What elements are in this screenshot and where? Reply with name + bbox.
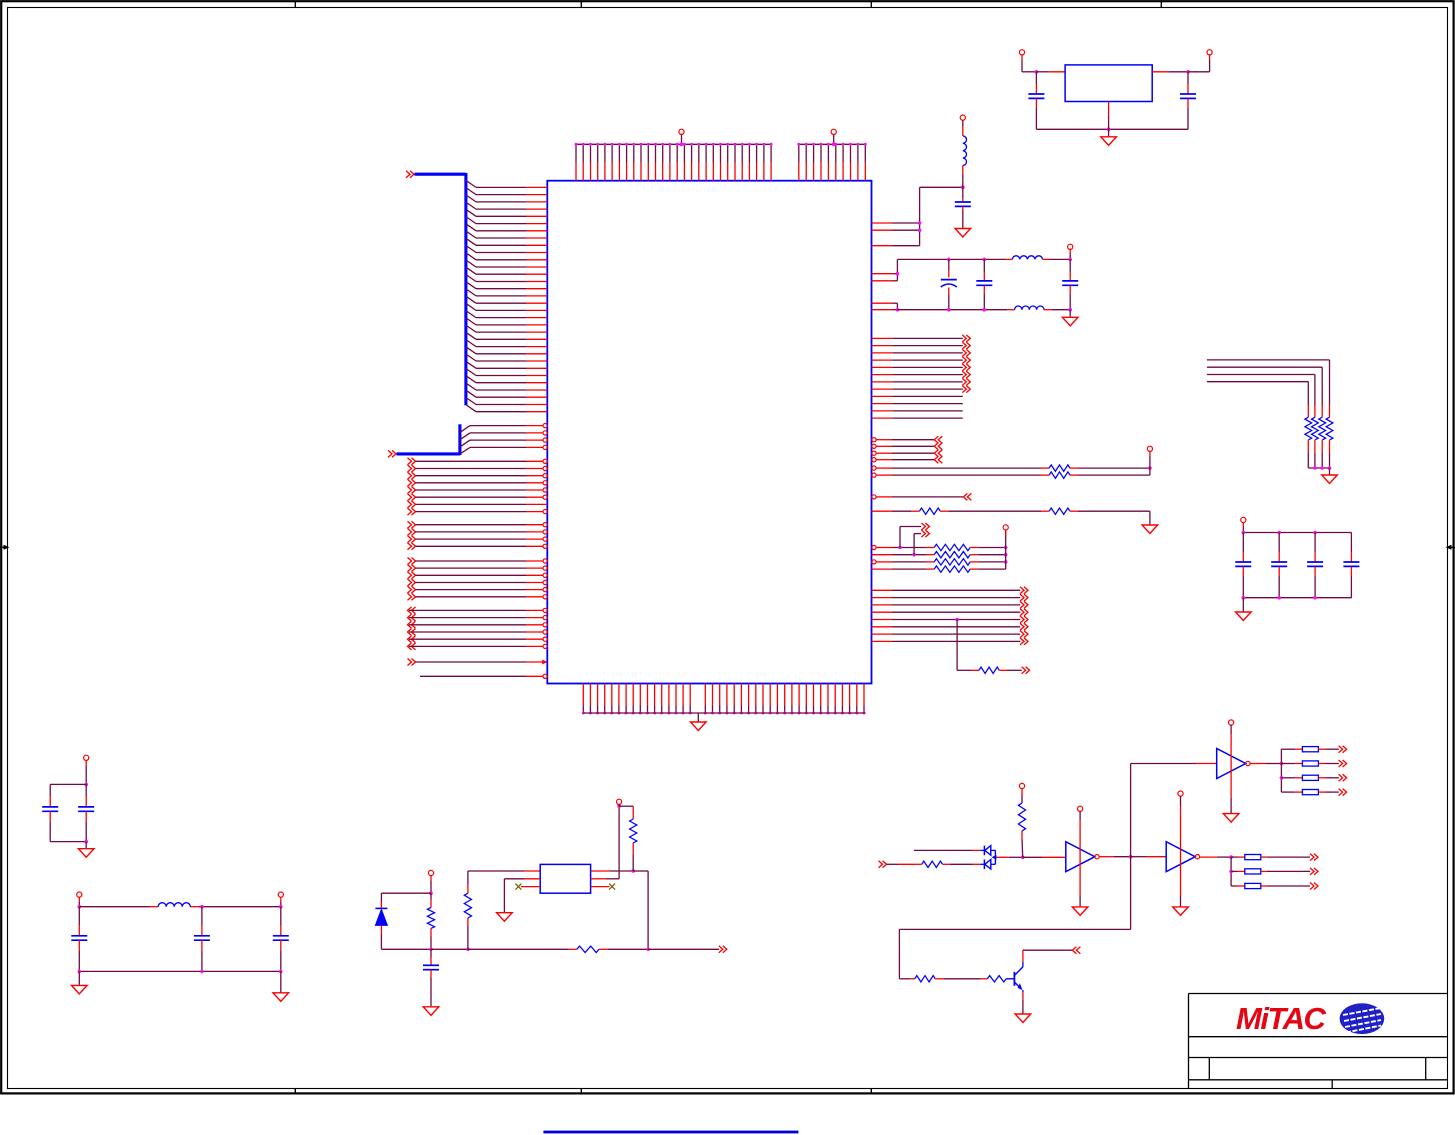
ground symbol IC bottom — [691, 722, 707, 731]
pull-down array input wires (4) — [1207, 359, 1330, 361]
IC right pins to L1 node — [872, 222, 893, 224]
wire L1 bottom — [962, 166, 964, 175]
ground symbol cap bank — [1236, 612, 1252, 621]
wire VR output — [1152, 71, 1169, 73]
IC right bus bundle (12 lines) — [872, 337, 893, 339]
decoupling capacitors C6-C9 — [1242, 533, 1244, 553]
wire pull-down common rail — [1308, 467, 1329, 469]
wire pull-up riser — [1149, 451, 1151, 456]
power pin circle U3 — [1178, 791, 1183, 796]
wire node L1 vertical — [919, 187, 921, 245]
ground symbol filter — [1062, 317, 1078, 326]
IC top pin array group 1 wires — [576, 143, 772, 145]
wire cap bank bottom rail — [1243, 597, 1351, 599]
wire F1 bottom rail — [79, 970, 280, 972]
IC right pins to filter — [872, 273, 893, 275]
ground symbol Y1 — [497, 913, 513, 922]
ground symbol F1 right — [273, 993, 289, 1002]
resistor R31 pull-up — [1021, 788, 1023, 795]
ground symbol Q1 — [1015, 1014, 1031, 1023]
power pin circle RN1 — [1003, 525, 1008, 530]
wire C3 bottom — [1069, 285, 1071, 294]
wire Y1 pull-up stub — [618, 804, 620, 806]
power pin circle U4 — [1229, 720, 1234, 725]
IC left pin bundle upper (32 lines) — [466, 180, 476, 187]
IC top pin array group 2 wires — [798, 143, 866, 145]
IC left signal group A (8 lines) — [408, 458, 416, 465]
power pin stub VDD top-1 — [681, 135, 683, 145]
capacitor C2 — [983, 258, 987, 262]
wire Q1 emitter to ground — [1022, 990, 1024, 993]
power pin circle VDD top-1 — [679, 129, 684, 134]
ground symbol X1 — [78, 849, 94, 858]
IC left bottom single signal — [420, 675, 526, 677]
wire F1 top rail — [78, 897, 80, 902]
pull-down resistor array RP1-RP4 — [1326, 417, 1333, 440]
inductor L4 — [158, 903, 190, 907]
buffer U4 — [1217, 749, 1246, 779]
wire riser to U4 — [1130, 764, 1132, 857]
ground symbol BC — [423, 1007, 439, 1016]
wire L1 top stub — [962, 120, 964, 126]
power pin circle VR in — [1019, 50, 1024, 55]
no-connect X right — [591, 886, 610, 888]
ground symbol below C_L1 — [955, 229, 971, 238]
IC bottom pin array wires — [582, 684, 584, 706]
clamp diode D3 — [983, 860, 985, 870]
IC left pin group with bus taps (4 lines) — [460, 426, 470, 433]
bottom link underline bar — [543, 1131, 798, 1134]
IC bottom ground stem — [697, 713, 699, 722]
wire C-stub red — [962, 198, 964, 202]
power pin circle buffer pull-up — [1019, 783, 1024, 788]
inductor L3 bottom — [1015, 306, 1044, 310]
wire RN1 common vertical — [1005, 532, 1007, 570]
bus wire left-upper vertical — [464, 173, 467, 405]
branch tap 1 to chevron — [898, 546, 902, 550]
bus wire left-lower horizontal — [397, 452, 460, 455]
wire filter bottom rail — [897, 309, 1007, 311]
wire BC output rail with resistor R23 — [468, 948, 569, 950]
wire Y1 pin2 to ground — [524, 878, 540, 880]
ground symbol U2 — [1072, 907, 1088, 916]
resistor R20 vertical — [430, 893, 432, 899]
power pin stub VDD top-2 — [833, 135, 835, 145]
capacitor C5 (VR out) — [1187, 72, 1189, 84]
ground symbol F1 left — [72, 985, 88, 994]
IC left signal group C (6 lines) — [408, 558, 416, 565]
ground symbol pull-down array — [1322, 475, 1338, 484]
wire X1 top — [85, 760, 87, 766]
capacitor C10 — [49, 784, 51, 796]
resistor R21 riser — [467, 926, 469, 949]
inductor L2 top — [1012, 256, 1042, 260]
IC left single signal with arrow — [408, 659, 416, 666]
regulator VR1 body — [1065, 65, 1152, 102]
capacitor C1 (tantalum) — [947, 258, 951, 262]
wire Q1 collector — [1022, 962, 1024, 967]
border center arrow left — [0, 546, 7, 548]
power pin circle pull-up — [1147, 446, 1152, 451]
ground symbol VR — [1101, 137, 1117, 146]
title block frame — [1189, 993, 1448, 995]
MiTAC globe logo — [1340, 1003, 1385, 1034]
resistor R39 — [899, 978, 909, 980]
power pin circle F1 left — [77, 892, 82, 897]
border zone ticks top — [294, 1, 296, 8]
zener diode D1 — [380, 893, 382, 901]
wire Y1 pin2r riser — [591, 878, 606, 880]
wire U2 ground stem — [1079, 872, 1081, 897]
wire U3 ground stem — [1180, 872, 1182, 897]
power pin circle F1 right — [278, 892, 283, 897]
IC left signal group D (6 lines) — [408, 607, 416, 614]
oscillator box Y1 — [540, 864, 590, 893]
wire to OSC box — [468, 870, 524, 872]
buffer U3 — [1166, 842, 1195, 872]
pull-up line 1 with resistor R10 — [872, 466, 876, 470]
wire U2 power stem — [1079, 811, 1081, 820]
capacitor C3 — [1062, 280, 1078, 282]
stub wire diode D2 anode — [914, 849, 973, 851]
IC right single signal F — [872, 495, 876, 499]
U3 output series resistors R32-R34 — [1230, 857, 1232, 886]
wire BC bottom node — [381, 948, 431, 950]
wire C_L1 to ground — [962, 206, 964, 211]
input chevron BR — [879, 861, 887, 868]
wire filter right vertical — [1069, 249, 1071, 254]
power pin circle VDD top-2 — [831, 129, 836, 134]
power pin circle U2 — [1078, 806, 1083, 811]
wire Y1 pin1 out — [591, 870, 610, 872]
wire U2 output — [1099, 856, 1114, 858]
bus wire left-lower vertical — [458, 424, 461, 455]
power pin circle cap bank — [1241, 517, 1246, 522]
termination resistor network RN1 (4 lines) — [872, 545, 876, 549]
resistor R22 pull-up — [619, 805, 633, 807]
wire U4 power stem — [1230, 725, 1232, 734]
power pin circle Y1 pull-up — [617, 799, 622, 804]
capacitor C11 — [85, 784, 87, 796]
power pin circle BC — [428, 870, 433, 875]
capacitor C4 (VR in) — [1035, 72, 1037, 84]
tap with series resistor R14 — [955, 618, 959, 622]
svg-text:MiTAC: MiTAC — [1236, 1001, 1326, 1036]
bus entry chevron left-upper — [406, 171, 414, 178]
branch tap 2 to chevron — [912, 553, 916, 557]
ground symbol right mid — [1142, 525, 1158, 534]
buffer U2 — [1066, 842, 1095, 872]
wire to buffer U2 — [1023, 856, 1042, 858]
pull-up line 2 with resistor R11 — [872, 473, 876, 477]
U4 output series resistors R35-R38 — [1280, 749, 1282, 792]
wire U3 power stem — [1180, 796, 1182, 806]
ground symbol U4 — [1223, 814, 1239, 823]
base resistor R40 — [981, 978, 988, 980]
capacitor C15 — [430, 949, 432, 957]
wire U4 output — [1250, 763, 1266, 765]
series resistor line to ground R12 R13 — [872, 510, 893, 512]
border center arrow right — [1449, 546, 1455, 548]
power pin circle X1 — [84, 755, 89, 760]
wire cap bank top rail — [1242, 522, 1244, 527]
ground symbol U3 — [1173, 907, 1189, 916]
clamp diode D2 — [983, 846, 985, 856]
wire VR ground rail — [1036, 128, 1188, 130]
power pin circle filter — [1068, 244, 1073, 249]
power pin circle L1 top — [960, 115, 965, 120]
power pin circle VR out — [1207, 50, 1212, 55]
inductor L1 — [963, 136, 967, 166]
wire BC top node — [430, 875, 432, 881]
wire clamp common — [994, 850, 996, 864]
IC right signal group E (4 lines) — [872, 438, 876, 442]
filter capacitors C12-C14 — [78, 907, 80, 925]
IC left signal group B (4 lines) — [408, 521, 416, 528]
no-connect X left — [521, 886, 540, 888]
input wire with resistor R30 — [887, 863, 899, 865]
transistor Q1 — [1013, 972, 1015, 986]
bus wire left-upper horizontal — [415, 173, 466, 176]
capacitor C_L1 — [955, 201, 971, 203]
wire filter left verticals — [896, 259, 898, 280]
wire buffer node to Q1 branch — [1130, 857, 1132, 930]
wire VR input — [1021, 55, 1023, 60]
wire U4 ground stem — [1230, 779, 1232, 799]
wire U3 output — [1200, 856, 1217, 858]
bus entry chevron left-lower — [388, 450, 396, 457]
IC U1 body — [547, 181, 871, 684]
IC right signal group G (8 lines) — [872, 589, 893, 591]
wire X1 bottom — [50, 841, 86, 843]
border zone ticks bottom — [294, 1089, 296, 1095]
wire filter top rail — [897, 258, 1005, 260]
